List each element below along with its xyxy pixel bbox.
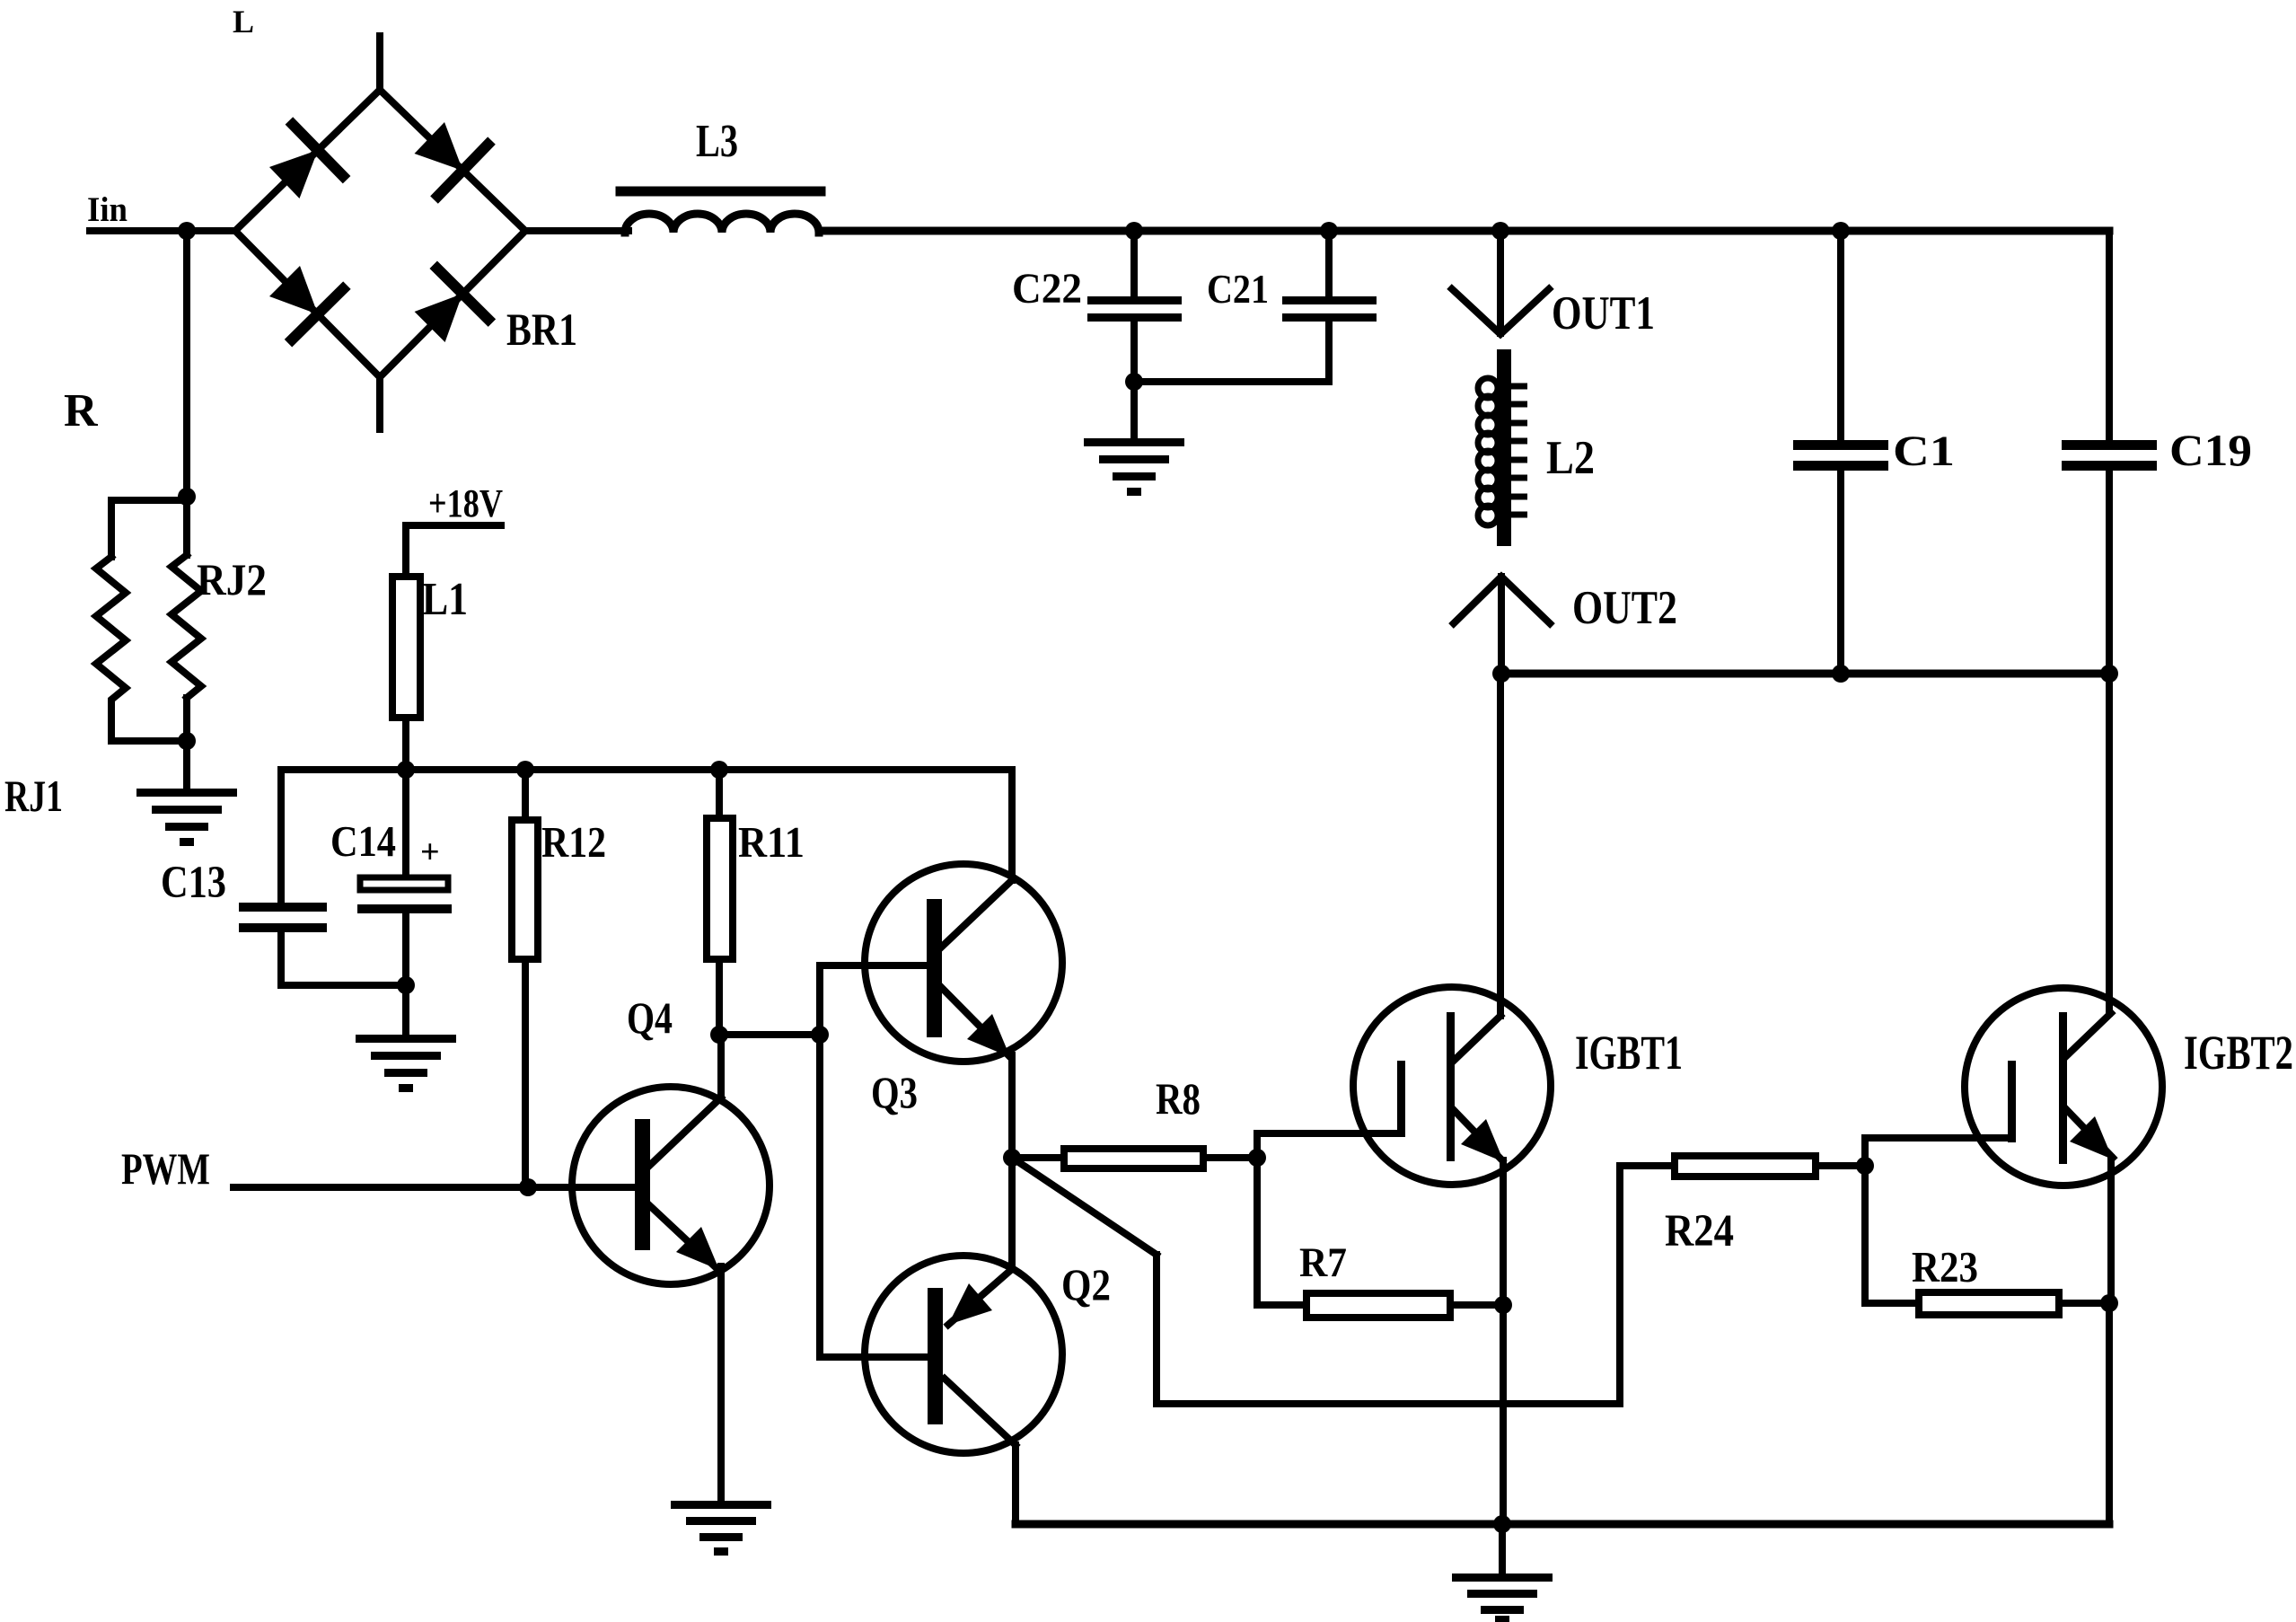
wire C1 top stem	[1837, 231, 1844, 440]
node C22 top junction	[1125, 222, 1143, 240]
wire C14 top stem	[402, 770, 409, 877]
wire ground stem below C14	[402, 985, 409, 1036]
node R/RJ2 top junction	[178, 488, 196, 506]
svg-text:IGBT1: IGBT1	[1575, 1026, 1683, 1080]
node PWM / Q4 base junction	[519, 1178, 537, 1196]
inductor L3 core bar	[620, 187, 821, 197]
svg-text:OUT2: OUT2	[1572, 582, 1677, 634]
capacitor C1 plates	[1793, 440, 1888, 471]
wire bottom bus	[1016, 1521, 2109, 1529]
svg-text:OUT1: OUT1	[1552, 287, 1655, 339]
node L1 bottom junction	[397, 761, 415, 779]
wire IGBT2 emitter diagonal	[2064, 1107, 2113, 1158]
wire OUT2 stem to lower bus	[1498, 577, 1505, 674]
node C19 lower bus junction	[2100, 665, 2118, 683]
svg-text:Q2: Q2	[1061, 1259, 1111, 1309]
thermistor RJ2 lower stem	[183, 698, 190, 741]
wire R7 drop from gate node	[1257, 1158, 1306, 1305]
svg-text:RJ2: RJ2	[197, 554, 267, 604]
transistor IGBT1	[1353, 987, 1551, 1185]
ground below bottom bus	[1452, 1574, 1553, 1622]
wire Iin input to bridge left vertex	[90, 227, 235, 234]
wire bottom link from resistor R	[111, 738, 187, 741]
wire top link to resistor R	[111, 500, 187, 557]
wire IGBT2 collector diagonal	[2064, 1013, 2111, 1058]
wire ground stem below bottom bus	[1499, 1524, 1506, 1574]
svg-text:+: +	[420, 833, 440, 871]
wire R24 left lead	[1620, 1162, 1675, 1169]
svg-text:R8: R8	[1156, 1073, 1201, 1124]
wire input junction down to R/RJ2 top	[183, 231, 190, 497]
svg-text:IGBT2: IGBT2	[2184, 1026, 2293, 1080]
transistor IGBT2	[1965, 988, 2162, 1186]
svg-text:Q4: Q4	[627, 992, 673, 1043]
wire Q3 base lead	[820, 962, 927, 969]
svg-text:RJ1: RJ1	[4, 771, 63, 821]
wire ground stem below C22	[1130, 382, 1138, 439]
wire bridge bottom AC stub	[376, 377, 383, 429]
ground below C22/C21	[1084, 438, 1184, 496]
wire IGBT1 collector diagonal	[1454, 1016, 1500, 1061]
node OUT2 arrow chevron	[1451, 577, 1553, 626]
wire PWM input	[233, 1184, 635, 1191]
svg-text:C21: C21	[1207, 266, 1269, 312]
transistor Q2	[865, 1256, 1062, 1453]
resistor R11 body	[707, 818, 733, 959]
wire C21 bottom stem	[1325, 322, 1333, 382]
wire Q4 emitter diagonal	[647, 1203, 717, 1269]
wire C14 bottom stem	[402, 913, 409, 985]
capacitor C21 plates	[1282, 296, 1377, 322]
node R23 / IGBT2 emitter junction	[2100, 1294, 2118, 1312]
node IGBT1 gate junction	[1248, 1149, 1266, 1167]
diode BR1 lower-right	[415, 265, 492, 342]
wire C22/C21 bottom link	[1134, 378, 1329, 385]
node C22/C21 bottom junction	[1125, 373, 1143, 391]
wire IGBT1 emitter vertical to bottom bus	[1500, 1160, 1507, 1524]
node base-link junction	[811, 1026, 829, 1044]
resistor R7 body	[1306, 1293, 1450, 1318]
wire R11 bottom stem	[716, 959, 723, 1035]
resistor R23 body	[1919, 1292, 2059, 1315]
svg-text:C13: C13	[161, 858, 226, 908]
svg-text:L2: L2	[1546, 432, 1595, 484]
svg-text:C14: C14	[330, 816, 396, 866]
node C1 top junction	[1832, 222, 1850, 240]
wire C22 top stem	[1130, 231, 1138, 297]
wire ground stem below RJ1/RJ2	[183, 741, 190, 789]
node C13/C14 bottom junction	[397, 976, 415, 994]
resistor R8 body	[1064, 1149, 1203, 1168]
wire bridge right vertex to L3	[525, 227, 629, 234]
svg-text:Q3: Q3	[871, 1067, 918, 1117]
wire R12 top stem	[522, 770, 529, 820]
node driver output junction	[1003, 1149, 1021, 1167]
diode BR1 upper-right	[415, 122, 492, 200]
node Q4 collector / R11 junction	[710, 1026, 728, 1044]
wire Q4 collector diagonal	[647, 1097, 721, 1168]
wire Q4 emitter down to ground	[717, 1266, 725, 1502]
wire L1 bottom stem	[402, 718, 409, 770]
transistor Q4	[572, 1087, 770, 1284]
ground below Q4 emitter	[671, 1501, 771, 1556]
svg-text:R7: R7	[1299, 1239, 1347, 1286]
resistor R zigzag	[96, 557, 126, 738]
svg-text:C19: C19	[2169, 425, 2252, 475]
wire Q3 collector diagonal	[942, 880, 1012, 947]
wire driver node to R8	[1012, 1154, 1064, 1161]
node C21 top junction	[1320, 222, 1338, 240]
inductor L2	[1478, 349, 1527, 546]
node Iin branch junction	[178, 222, 196, 240]
resistor R12 body	[512, 820, 538, 959]
wire IGBT1 collector vertical	[1497, 674, 1504, 1016]
node OUT1 top junction	[1491, 222, 1509, 240]
diode BR1 lower-left	[269, 266, 347, 343]
wire C21 top stem	[1325, 231, 1333, 297]
wire Q2 collector down to bottom bus	[1012, 1445, 1019, 1524]
wire IGBT2 emitter vertical to R23 node	[2107, 1158, 2115, 1303]
ground below C14	[356, 1035, 456, 1092]
wire C19 bottom stem	[2106, 471, 2113, 674]
wire Q3 emitter to driver node	[1008, 1055, 1016, 1158]
svg-text:PWM: PWM	[121, 1143, 210, 1194]
wire C1 bottom stem	[1837, 471, 1844, 674]
wire Q3 collector vertical from rail	[1008, 770, 1016, 880]
wire R7 right lead	[1450, 1301, 1503, 1309]
wire lower bus OUT2 to C19	[1500, 670, 2109, 678]
svg-text:C22: C22	[1012, 265, 1082, 313]
wire R23 right lead	[2059, 1300, 2109, 1307]
svg-text:R24: R24	[1665, 1206, 1734, 1256]
wire OUT1 stem	[1497, 231, 1504, 333]
wire Q2 collector diagonal	[945, 1379, 1016, 1445]
wire R12 bottom stem to PWM node	[522, 959, 529, 1187]
wire lower run horizontal to R24 riser	[1157, 1400, 1620, 1407]
wire R8 right lead	[1203, 1154, 1257, 1161]
inductor L1 body	[392, 577, 420, 718]
wire lower run vertical	[1153, 1255, 1160, 1404]
wire Q4 collector vertical	[717, 1035, 725, 1097]
node C1 lower bus junction	[1832, 665, 1850, 683]
wire driver node diagonal to lower run	[1012, 1158, 1157, 1255]
node OUT2 lower bus junction	[1492, 665, 1510, 683]
svg-text:R12: R12	[541, 817, 606, 867]
svg-text:R11: R11	[738, 817, 805, 867]
node R11 rail junction	[710, 761, 728, 779]
wire C22 bottom stem	[1130, 322, 1138, 382]
capacitor C13 plates	[239, 903, 327, 932]
wire IGBT1 emitter diagonal	[1454, 1110, 1502, 1160]
wire IGBT2 emitter to bottom bus corner	[2106, 1303, 2113, 1524]
wire Q3 emitter diagonal	[942, 988, 1008, 1055]
node R7 / IGBT1 emitter junction	[1494, 1296, 1512, 1314]
svg-text:L1: L1	[422, 574, 468, 625]
wire R24 riser vertical	[1616, 1166, 1623, 1404]
node bottom bus ground junction	[1493, 1515, 1511, 1533]
wire Q2 base lead	[820, 1353, 928, 1361]
wire C13 top stem	[277, 770, 285, 903]
wire R24 right lead	[1816, 1162, 1865, 1169]
diode BR1 upper-left	[269, 120, 347, 198]
capacitor C22 plates	[1087, 296, 1182, 322]
wire R11 node to base-link vertical	[719, 1031, 820, 1038]
svg-text:L: L	[233, 4, 254, 40]
node OUT1 arrow chevron	[1449, 286, 1552, 334]
svg-text:Iin: Iin	[87, 190, 128, 229]
wire R11 top stem	[716, 770, 723, 818]
thermistor RJ2 upper stem	[183, 497, 190, 555]
wire bridge top AC stub	[376, 36, 383, 90]
inductor L3 coil arcs	[625, 214, 819, 233]
capacitor C14 polarized plates	[357, 877, 452, 913]
node R12 rail junction	[516, 761, 534, 779]
svg-text:+18V: +18V	[428, 481, 503, 525]
wire Q2 emitter vertical	[1008, 1158, 1016, 1269]
transistor Q3	[865, 864, 1062, 1062]
wire C19 top stem	[2106, 231, 2113, 440]
wire +18V feed	[406, 525, 501, 577]
wire C13 bottom stem	[277, 932, 285, 985]
capacitor C19 plates	[2062, 440, 2157, 471]
node IGBT2 gate junction	[1856, 1157, 1874, 1175]
svg-text:R23: R23	[1912, 1242, 1978, 1291]
ground RJ1	[136, 789, 237, 846]
wire IGBT1 gate step	[1257, 1133, 1401, 1158]
svg-text:BR1: BR1	[506, 305, 577, 356]
wire driver top rail	[281, 766, 1011, 773]
wire main top bus L3 to right corner	[820, 227, 2109, 235]
resistor R24 body	[1675, 1156, 1816, 1177]
wire Q2 emitter diagonal	[948, 1269, 1012, 1325]
wire R23 drop from gate node	[1865, 1166, 1919, 1303]
bridge rectifier BR1 diamond edges	[235, 90, 525, 377]
svg-text:C1: C1	[1893, 428, 1955, 475]
node R/RJ2 bottom junction	[178, 732, 196, 750]
wire IGBT2 gate step	[1865, 1138, 2011, 1166]
wire Q3/Q2 base link vertical	[816, 965, 823, 1357]
thermistor RJ2 zigzag	[172, 555, 201, 698]
svg-text:L3: L3	[696, 116, 738, 167]
wire C13 to C14 bottom link	[281, 982, 406, 989]
svg-text:R: R	[64, 385, 99, 436]
wire IGBT2 collector vertical	[2106, 674, 2113, 1013]
